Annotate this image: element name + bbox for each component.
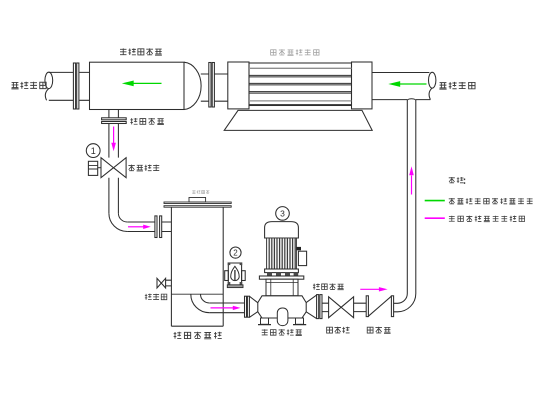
pump: knob (297, 247, 301, 250)
valve: check valve (366, 296, 368, 317)
pipe: below valve to elbow (109, 178, 119, 213)
tank: motor box on lid (189, 198, 206, 203)
label: stop valve (327, 327, 350, 333)
arrow: green flow in collector (122, 81, 445, 201)
pipe: discharge run (322, 303, 398, 312)
pipe: riser vertical (407, 100, 416, 294)
pipe: horizontal into tank (127, 222, 171, 232)
legend: magenta text (449, 216, 525, 222)
pump: discharge cone (306, 295, 316, 318)
legend magenta line (425, 217, 445, 219)
arrow: magenta up riser (411, 176, 413, 195)
callout circle 2 (230, 247, 241, 258)
label: electric valve (128, 165, 159, 171)
pipe: tank to pump suction (209, 303, 244, 313)
vessel: ball collector body (90, 62, 185, 109)
pump: motor cap (265, 222, 299, 238)
pump: suction cone (249, 296, 258, 317)
riser saddle arc (407, 99, 416, 100)
svg-text:1: 1 (91, 146, 96, 156)
pipe break symbol left (45, 72, 53, 88)
pump: terminal box (298, 251, 306, 265)
pump: bottom cap (277, 308, 288, 326)
arrow: magenta discharge (360, 288, 379, 290)
valve V1: actuator box (88, 161, 97, 175)
condenser: support trapezoid (224, 110, 372, 130)
flange: pump discharge (317, 295, 319, 319)
drain stub (165, 280, 172, 286)
legend green line (425, 200, 445, 202)
device D2: teardrop window (231, 266, 240, 280)
valve V1: electric valve bowtie (98, 167, 114, 169)
elbow: bottom right (398, 294, 408, 304)
tank: walls and bottom (171, 207, 223, 326)
pump: volute casing (258, 296, 306, 318)
svg-text:3: 3 (280, 209, 285, 219)
label: pump name (262, 329, 302, 335)
pipe: circulation outlet (left) (49, 72, 90, 100)
pump: column (266, 279, 298, 296)
label: tank name (174, 332, 222, 339)
pipe: circulation inlet (right) (372, 73, 430, 100)
label: circulation out (11, 82, 46, 89)
callout numbers text (91, 146, 285, 258)
label: condenser (271, 49, 319, 55)
pump: feet (261, 318, 269, 324)
label: drain port (145, 294, 167, 300)
elbow: valve to tank (118, 213, 127, 222)
tank: internal plate (171, 293, 223, 295)
pump: lantern feet (267, 273, 272, 276)
callout circle 3 (276, 207, 290, 221)
legend: green text (449, 198, 533, 204)
flange: tank inlet (155, 216, 157, 238)
svg-text:2: 2 (233, 249, 238, 258)
arrow: magenta down into valve (113, 127, 115, 144)
arrow: green flow right pipe (399, 83, 427, 85)
device D2: side tabs (225, 271, 229, 281)
condenser: left header (228, 62, 249, 109)
arrow: magenta right into tank (128, 226, 144, 228)
pipe: collector bottom outlet (109, 110, 119, 158)
flange: pump suction (245, 296, 247, 317)
pump: fin body (267, 238, 297, 269)
condenser: tubes (249, 75, 352, 93)
pump: motor bottom rim (265, 269, 299, 273)
device D2: bottom band (227, 285, 243, 288)
label: ball collector (120, 48, 162, 55)
tank: internal outlet elbow (191, 294, 210, 313)
valve: drain bowtie (157, 278, 161, 288)
legend: title (449, 177, 464, 183)
label: circulation in (439, 82, 475, 89)
condenser: right header (352, 62, 373, 109)
callout circle 1 (86, 144, 100, 158)
pump: flange plate (259, 276, 303, 279)
flange: ball inlet (102, 118, 127, 120)
flange: collector inlet left (73, 63, 75, 109)
flange: collector to condenser (209, 63, 211, 108)
label: check valve (367, 327, 390, 334)
pipe break symbol right (429, 72, 436, 88)
pipe: dome to condenser (201, 74, 228, 101)
device D2: body (228, 263, 241, 285)
valve: stop valve bowtie (329, 297, 342, 318)
vessel: collector dome end (184, 62, 201, 109)
condenser: tube bundle shell (249, 63, 352, 106)
arrow: magenta tank to pump (211, 307, 234, 309)
tank: lid slabs (164, 202, 231, 204)
label: ball inlet (130, 118, 164, 125)
label: tiny motor text (192, 190, 209, 193)
label: ball outlet (313, 283, 344, 289)
device D2: corner bolts (228, 262, 231, 265)
